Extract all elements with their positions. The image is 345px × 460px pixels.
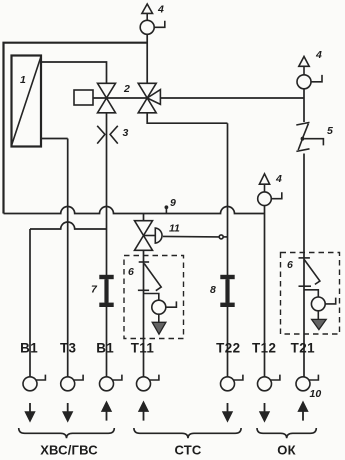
orifice 8 (220, 275, 234, 307)
wire: riser from vent 4 down to valve 2 (146, 34, 148, 83)
air vent 4 (right top) : stem (303, 66, 305, 75)
svg-text:В1: В1 (96, 340, 114, 355)
wire: stem from header to valve 11 (143, 214, 145, 221)
wire: impulse line from actuator 11 to T22 riser (163, 235, 219, 238)
brace XVS/GVS (19, 428, 115, 438)
svg-text:4: 4 (157, 4, 164, 16)
flow arrow T3 (down) (64, 403, 72, 421)
wire: riser from regulator 5 down to T21 tap (303, 154, 305, 377)
unit 6 (right) : lever diagonal (304, 260, 320, 285)
valve 11 : diaphragm actuator (155, 228, 162, 243)
node 9 : sensor point dot (165, 205, 169, 209)
regulator unit 6 (right) : dashed enclosure (281, 253, 340, 335)
svg-text:Т21: Т21 (291, 340, 315, 355)
air vent 4 (middle right) : triangle (259, 174, 269, 184)
svg-text:5: 5 (327, 125, 333, 137)
unit 6 (right) : relief circle (311, 297, 325, 311)
svg-text:Т12: Т12 (252, 340, 276, 355)
tap handle T11 (149, 375, 159, 380)
wire: cold water bypass (line 2) with hop (30, 222, 107, 229)
unit 6 (middle) : lower tick (138, 289, 149, 291)
tap handle T22 (233, 375, 243, 380)
svg-text:11: 11 (169, 223, 180, 235)
tap circle T21 (296, 377, 310, 391)
wire: T11 riser below valve 11 (143, 250, 145, 377)
svg-text:3: 3 (123, 127, 129, 139)
unit 6 (right) : relief handle (325, 298, 336, 304)
wire: T12 riser (264, 206, 266, 377)
flow arrow T21 (up) (299, 403, 307, 421)
unit 6 (middle) : upper tick (139, 261, 149, 263)
unit 6 (right) : branch to relief (304, 290, 318, 297)
air vent 4 (right top) : triangle (299, 57, 309, 67)
tap circle T22 (221, 377, 235, 391)
regulator 5 : lower tick (296, 149, 309, 152)
actuator box of valve V1 (74, 90, 93, 105)
regulator 5 : lower diagonal (298, 140, 302, 150)
valve 2 (three-way) (138, 83, 160, 113)
svg-text:СТС: СТС (175, 443, 202, 458)
tap circle B1 outlet (100, 377, 114, 391)
tap handle B1 inlet (36, 375, 46, 380)
wire: T22 riser (227, 123, 229, 377)
wire: main lower header (line 1) with hops (4, 207, 265, 214)
wire: exchanger top port to valve riser (41, 62, 107, 83)
svg-text:4: 4 (315, 49, 322, 61)
brace OK (257, 428, 316, 438)
air vent 4 (right top) : body circle (297, 75, 311, 89)
unit 6 (right) : drain stem (317, 311, 319, 320)
svg-text:6: 6 (287, 259, 293, 271)
air vent 4 (right top) : handle (311, 75, 322, 82)
valve 3 (closed manual valve chevrons) (97, 126, 118, 144)
unit 6 (middle) : drain triangle (152, 322, 166, 334)
svg-text:Т22: Т22 (216, 340, 240, 355)
node 9 : stem (165, 209, 167, 214)
tap handle B1 outlet (112, 375, 122, 380)
flow arrow T11 (up) (139, 403, 147, 421)
wire: B1 inlet riser (29, 229, 31, 377)
air vent 4 (middle right) : handle (271, 192, 282, 199)
wire: impulse tap to riser (223, 236, 227, 238)
air vent 4 (top) : stem (146, 13, 148, 20)
valve 11 (regulating valve body) (135, 221, 153, 251)
svg-text:Т11: Т11 (131, 340, 155, 355)
tap handle T3 (74, 375, 84, 380)
regulator 5 : upper diagonal (303, 124, 309, 138)
regulator 5 : upper tick (296, 122, 309, 125)
unit 6 (middle) : relief handle (166, 301, 177, 307)
tap circle B1 inlet (23, 377, 37, 391)
svg-text:6: 6 (128, 266, 134, 278)
tap circle T11 (137, 377, 151, 391)
wire: valve 2 bottom to T22 riser (147, 113, 227, 123)
tap handle T12 (270, 375, 280, 380)
svg-text:9: 9 (170, 197, 176, 209)
air vent 4 (top) : handle (154, 21, 165, 28)
regulator 5 : pivot dot (301, 137, 305, 141)
brace STS (134, 428, 241, 438)
unit 6 (middle) : branch to relief (144, 294, 159, 301)
heat exchanger 1 (12, 56, 42, 147)
wire: exchanger bottom port to T3 riser (41, 138, 68, 140)
air vent 4 (middle right) : body circle (258, 192, 272, 206)
svg-text:4: 4 (275, 173, 282, 185)
svg-text:ХВС/ГВС: ХВС/ГВС (40, 443, 98, 458)
svg-text:В1: В1 (20, 340, 38, 355)
wire: top supply line from left riser to valve-2 riser (4, 43, 148, 214)
tap handle T21 (309, 375, 319, 380)
regulator unit 6 (middle) : dashed enclosure (124, 256, 184, 339)
air vent 4 (top) : triangle (142, 4, 153, 13)
node: impulse tap circle (219, 235, 223, 239)
valve V1 (two-way, on exchanger line) (98, 83, 116, 113)
wire: B1 outlet riser (106, 113, 108, 377)
unit 6 (middle) : relief circle (152, 300, 166, 314)
unit 6 (middle) : lever diagonal (144, 264, 161, 291)
svg-text:1: 1 (20, 74, 26, 86)
flow arrow B1 inlet (down) (26, 403, 34, 421)
unit 6 (middle) : drain stem (158, 314, 160, 322)
tap circle T3 (61, 377, 75, 391)
flow arrow B1 outlet (up) (102, 403, 110, 421)
svg-text:2: 2 (123, 83, 130, 95)
air vent 4 (middle right) : stem (264, 184, 266, 192)
wire: right riser from vent through main line to regulator 5 (303, 89, 305, 122)
regulator 5 : impulse handle (304, 139, 323, 146)
orifice 7 (99, 275, 113, 307)
svg-text:ОК: ОК (277, 443, 295, 458)
wire: main horizontal line through valves to right riser (93, 97, 304, 99)
flow arrow T12 (down) (260, 403, 268, 421)
unit 6 (right) : upper tick (299, 257, 310, 259)
valve 11 : link to actuator (144, 235, 156, 237)
unit 6 (right) : lower tick (299, 285, 312, 287)
svg-text:8: 8 (210, 284, 216, 296)
unit 6 (right) : drain triangle (312, 319, 327, 329)
svg-text:Т3: Т3 (60, 340, 76, 355)
tap circle T12 (258, 377, 272, 391)
flow arrow T22 (down) (223, 403, 231, 421)
air vent 4 (top) : body circle (140, 20, 154, 34)
svg-text:10: 10 (310, 388, 322, 400)
wire: T3 riser (67, 139, 69, 377)
